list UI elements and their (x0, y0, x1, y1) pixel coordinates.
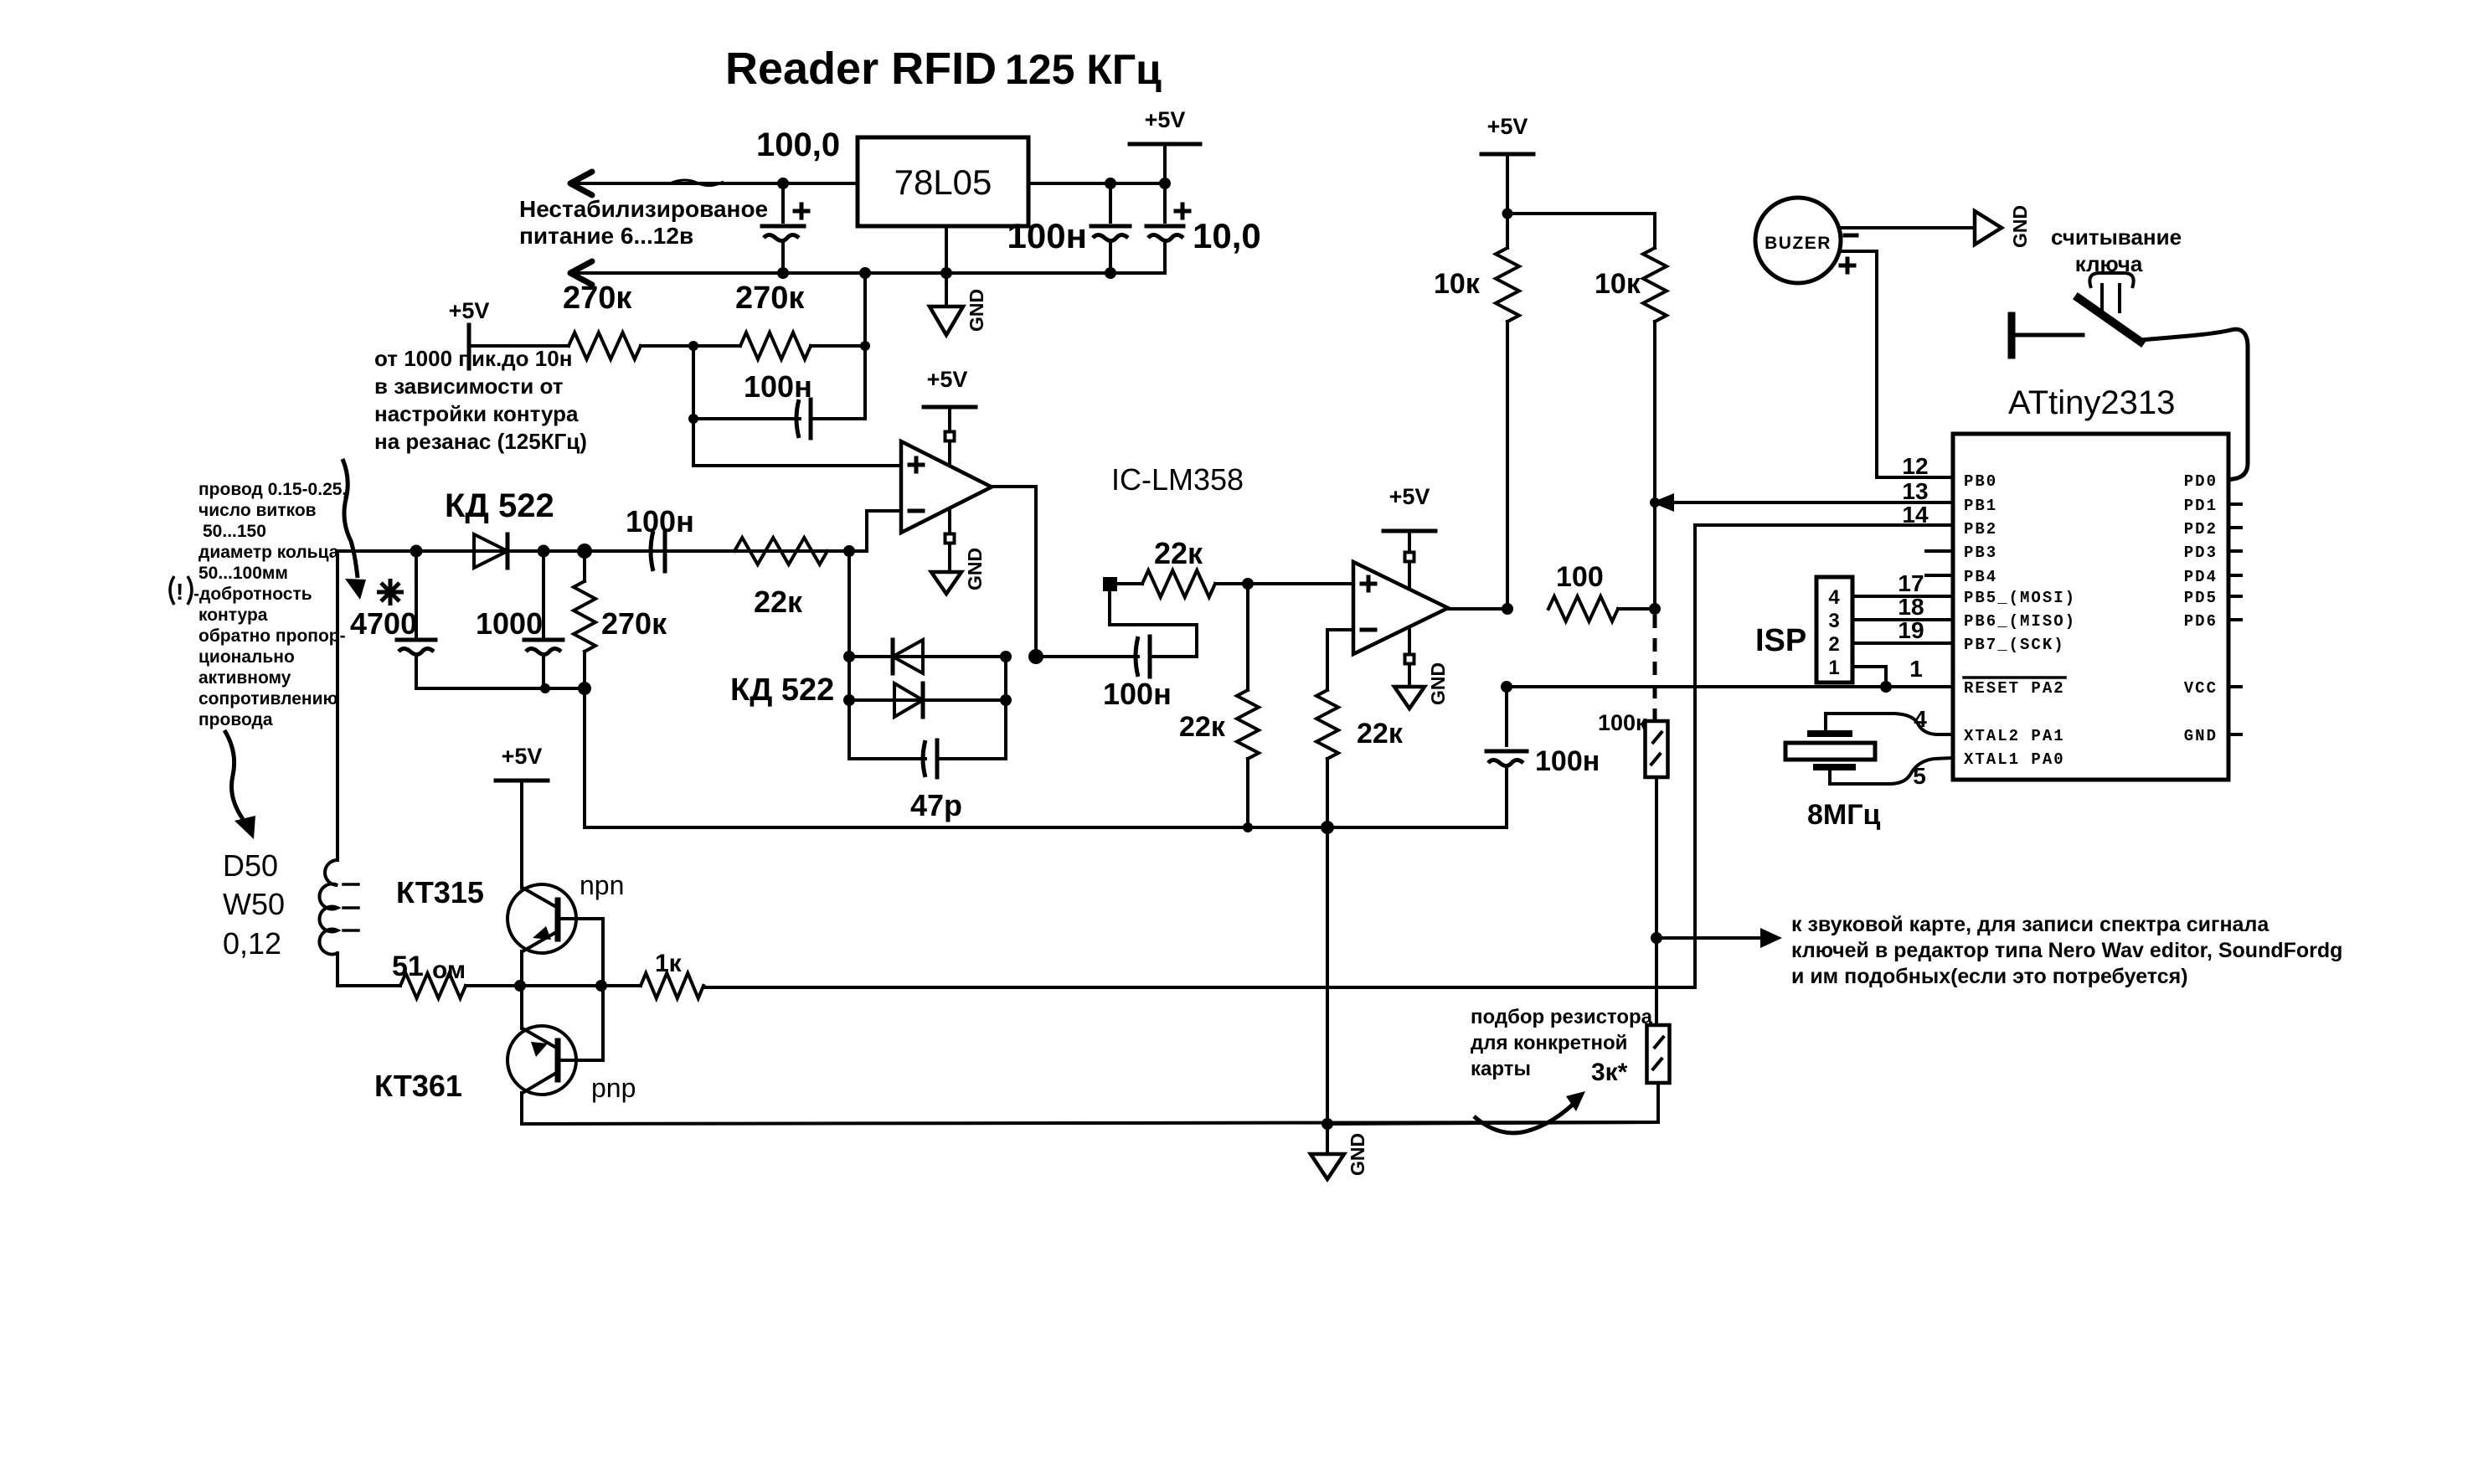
node: 100н on rail (1105, 267, 1116, 279)
node: D2 right (1000, 651, 1012, 662)
power symbol +5V (comparator pullups) (1481, 114, 1533, 214)
node: D3 right (1000, 694, 1012, 706)
node: 78L05 GND on rail (940, 267, 952, 279)
op-amp U1B LM358 (1353, 562, 1448, 654)
label: coil winding notes (193, 480, 347, 729)
svg-text:провода: провода (198, 710, 273, 729)
arrow: annotation to tuning cap (343, 459, 366, 600)
svg-text:обратно пропор-: обратно пропор- (198, 626, 346, 646)
pin stub PB4 (1926, 574, 1953, 577)
svg-text:GND: GND (966, 289, 987, 332)
wire: R11 to sound-card tap (1655, 777, 1658, 938)
wire: bias node to op-amp U1A + input (693, 419, 901, 466)
wire: unregulated input rail (570, 180, 858, 186)
pin stub PB3 (1926, 549, 1953, 553)
svg-text:PB3: PB3 (1964, 544, 1997, 562)
arrowhead: ground rail to external supply (570, 261, 592, 285)
svg-text:карты: карты (1471, 1058, 1531, 1080)
ground symbol (main) (1311, 1154, 1344, 1179)
switch SW1 fixed contact (2008, 316, 2016, 355)
wire: 78L05 GND pin drop (945, 226, 948, 307)
svg-text:1: 1 (1828, 657, 1839, 679)
wire: RESET line (pin 1) (1501, 681, 1953, 693)
crystal X1 8МГц (1785, 734, 1881, 831)
pin stubs PD1-PD6 VCC GND (2228, 502, 2241, 506)
resistor R3 270к (detector load) (574, 551, 667, 688)
svg-text:+5V: +5V (1487, 114, 1528, 139)
label: считывание ключа (2051, 224, 2182, 276)
svg-text:от 1000 пик.до 10н: от 1000 пик.до 10н (374, 346, 572, 371)
svg-text:ом: ом (432, 956, 466, 984)
node: C6 junction (538, 545, 550, 558)
svg-text:КТ361: КТ361 (374, 1069, 462, 1103)
svg-text:100к: 100к (1598, 710, 1647, 735)
resistor R2 270к (735, 281, 811, 359)
svg-text:PB1: PB1 (1964, 497, 1997, 515)
svg-text:на резанас (125КГц): на резанас (125КГц) (374, 429, 587, 454)
voltage regulator U1 78L05 (858, 137, 1028, 226)
svg-text:RESET PA2: RESET PA2 (1964, 679, 2065, 698)
wire: R4 to inverting node (827, 549, 849, 553)
svg-text:настройки контура: настройки контура (374, 401, 579, 426)
svg-text:+5V: +5V (1145, 107, 1186, 132)
svg-text:Reader RFID: Reader RFID (725, 44, 997, 94)
svg-text:провод 0.15-0.25,: провод 0.15-0.25, (198, 480, 347, 499)
svg-text:10к: 10к (1434, 268, 1481, 300)
svg-text:100н: 100н (1535, 745, 1600, 777)
node: U1B + node (1242, 578, 1254, 590)
svg-text:PB4: PB4 (1964, 568, 1997, 586)
svg-text:PB5_(MOSI): PB5_(MOSI) (1964, 589, 2076, 607)
wire: D2 row (849, 655, 1006, 658)
wire: R5 to U1B + input (1215, 582, 1353, 585)
svg-text:IC-LM358: IC-LM358 (1111, 462, 1244, 497)
wire: U1B output to pullup node (1448, 607, 1507, 611)
label: Нестабилизированое питание 6...12в (519, 196, 768, 249)
wire: buzzer to GND (1841, 226, 1975, 229)
svg-text:PD1: PD1 (2184, 497, 2218, 515)
resistor R6 22к (divider to bus) (1179, 584, 1259, 827)
wire: Q1 emitter to node (520, 951, 523, 986)
capacitor C8 47р (feedback) (849, 740, 1006, 822)
svg-text:22к: 22к (1357, 718, 1404, 750)
svg-text:270к: 270к (735, 281, 805, 316)
svg-text:50...100мм: 50...100мм (198, 564, 288, 583)
svg-text:-добротность: -добротность (193, 585, 312, 604)
svg-text:PB7_(SCK): PB7_(SCK) (1964, 636, 2065, 654)
svg-text:диаметр кольца: диаметр кольца (198, 543, 339, 562)
resistor R4 22к (734, 538, 827, 619)
resistor R1 270к (563, 281, 641, 359)
svg-text:100н: 100н (1103, 677, 1172, 711)
wire: inverting bus drop to ground wire (1326, 827, 1329, 1124)
svg-text:22к: 22к (754, 585, 803, 619)
label: buzzer plus (1841, 264, 1854, 268)
wire: U1B - input step (1327, 628, 1353, 631)
wire: R12 to ground wire (1327, 1083, 1658, 1124)
svg-text:0,12: 0,12 (223, 926, 281, 961)
svg-text:КД 522: КД 522 (730, 672, 834, 708)
node: base node (595, 980, 607, 992)
diode D1 КД522 (detector) (445, 487, 554, 568)
svg-text:GND: GND (2184, 727, 2218, 745)
power symbol +5V (bias feed) (449, 298, 502, 368)
svg-text:+5V: +5V (449, 298, 490, 323)
svg-text:GND: GND (964, 548, 986, 590)
wire: step to U1A - input (849, 511, 901, 551)
svg-text:PB6_(MISO): PB6_(MISO) (1964, 612, 2076, 631)
op-amp U1A LM358 (901, 441, 992, 533)
svg-text:подбор резистора: подбор резистора (1471, 1006, 1653, 1028)
node: U1B output node (1502, 603, 1513, 615)
svg-text:100н: 100н (744, 369, 812, 404)
svg-text:+5V: +5V (502, 744, 543, 769)
diode D2 КД522 (feedback, points left) (893, 640, 923, 673)
node: R10/R11 junction (1649, 603, 1661, 615)
transistor Q2 КТ361 (pnp) (507, 1026, 603, 1095)
wire: Q2 collector to ground wire (520, 1093, 523, 1124)
wire: feedback node to C9 (1036, 655, 1138, 658)
svg-text:для конкретной: для конкретной (1471, 1032, 1627, 1054)
label: (!) mark (170, 576, 192, 605)
svg-text:XTAL2 PA1: XTAL2 PA1 (1964, 727, 2065, 745)
wire: riser to ground rail (863, 273, 867, 346)
svg-text:GND: GND (1427, 662, 1449, 705)
wire: tap to R12 (1655, 938, 1658, 1025)
svg-text:GND: GND (1347, 1133, 1368, 1176)
wire: +5V to R1 (502, 344, 569, 348)
svg-text:PD3: PD3 (2184, 544, 2218, 562)
wire: base column (601, 919, 605, 1060)
svg-text:BUZER: BUZER (1765, 234, 1832, 253)
svg-text:к звуковой карте, для записи с: к звуковой карте, для записи спектра сиг… (1791, 913, 2269, 936)
svg-text:17: 17 (1898, 570, 1924, 596)
wire: ISP-4 to PB5 (pin 17) (1852, 595, 1953, 598)
svg-text:10к: 10к (1595, 268, 1641, 300)
svg-text:10,0: 10,0 (1193, 216, 1261, 255)
node: output/100н junction (1105, 178, 1116, 189)
svg-text:npn: npn (580, 870, 624, 900)
node: R1/R2 junction (688, 341, 698, 351)
svg-text:VCC: VCC (2184, 679, 2218, 698)
wire: emitter-base link (520, 984, 601, 987)
svg-text:PD6: PD6 (2184, 612, 2218, 631)
svg-text:14: 14 (1902, 502, 1929, 528)
svg-text:считывание: считывание (2051, 224, 2182, 250)
node: 270k feed on rail (859, 267, 871, 279)
wire: R1 to R2 (641, 344, 740, 348)
ground symbol (buzzer, points right) (1975, 205, 2031, 248)
capacitor C5 4700 (tank) (350, 551, 435, 688)
node: ground symbol tap (1322, 1118, 1333, 1130)
microcontroller U2 ATtiny2313 (1953, 384, 2228, 780)
svg-text:PD2: PD2 (2184, 520, 2218, 538)
svg-text:D50: D50 (223, 848, 278, 883)
node: sound-card tap (1651, 932, 1662, 944)
wire: R13 to emitter node (466, 984, 520, 987)
svg-text:!: ! (176, 579, 183, 605)
label: asterisk (selected value) (377, 579, 404, 605)
wire: D3 row (849, 698, 1006, 702)
svg-text:XTAL1 PA0: XTAL1 PA0 (1964, 750, 2065, 769)
wire: R2 to rail riser (811, 344, 865, 348)
arrow: to sound card (1656, 928, 1782, 948)
ground symbol (U1B) (1394, 628, 1449, 709)
node: tank/C5 junction (410, 545, 423, 558)
title text (725, 44, 1162, 94)
svg-text:100н: 100н (626, 504, 694, 538)
svg-text:2: 2 (1828, 633, 1839, 656)
ground symbol (U1A) (931, 509, 986, 594)
svg-text:+5V: +5V (927, 367, 968, 392)
svg-text:PD4: PD4 (2184, 568, 2218, 586)
wire: C7 to R4 (665, 549, 734, 553)
resistor R13 51 ом (392, 951, 466, 998)
label: к звуковой карте... (1791, 913, 2342, 988)
wire: ground return rail (570, 271, 1165, 275)
node: U1A inverting input node (843, 545, 855, 557)
svg-text:КД 522: КД 522 (445, 487, 554, 524)
node: R5 input pad (1103, 577, 1117, 591)
wire: crystal to XTAL2 (pin 4) (1826, 714, 1953, 734)
svg-text:4700: 4700 (350, 606, 417, 641)
wire: ISP-3 to PB6 (pin 18) (1852, 618, 1953, 621)
svg-text:в зависимости от: в зависимости от (374, 374, 564, 399)
svg-text:1к: 1к (655, 950, 683, 977)
svg-text:W50: W50 (223, 887, 285, 921)
power symbol +5V (driver) (496, 744, 548, 888)
wire: resonant tank top (coil to detector) (337, 549, 849, 553)
svg-text:ATtiny2313: ATtiny2313 (2008, 384, 2175, 421)
capacitor C10 100н (reset) (1486, 687, 1600, 827)
svg-text:13: 13 (1902, 478, 1928, 504)
U2 left pin labels (1964, 472, 2076, 769)
resistor R14 1к (601, 950, 703, 998)
resistor R11 100к (box style) (1598, 710, 1668, 777)
svg-text:270к: 270к (563, 281, 632, 316)
node: 22k divider on bus (1243, 822, 1253, 832)
svg-text:PD0: PD0 (2184, 472, 2218, 491)
resistor R10 100 (output series) (1548, 561, 1655, 621)
wire: dashed link to R11 (1653, 615, 1657, 721)
wire: PB2 riser and line (pin 14) (703, 525, 1953, 987)
wire: PB1 line (pin 13) (1651, 493, 1953, 512)
resistor R7 22к (feedback to bus) (1316, 630, 1404, 827)
svg-text:PB0: PB0 (1964, 472, 1997, 491)
svg-text:и им подобных(если это потребу: и им подобных(если это потребуется) (1791, 965, 2188, 988)
label: подбор резистора... (1471, 1006, 1653, 1080)
svg-text:125 КГц: 125 КГц (1005, 46, 1162, 93)
svg-text:100: 100 (1556, 561, 1604, 593)
svg-text:PB2: PB2 (1964, 520, 1997, 538)
svg-text:число витков: число витков (198, 501, 317, 520)
wire: contact to pivot (2015, 333, 2083, 338)
wire: crystal to XTAL1 (pin 5) (1830, 758, 1953, 784)
svg-text:1: 1 (1909, 656, 1923, 682)
wire: ISP-1 to RESET (1852, 667, 1892, 693)
resistor R8 10к (1434, 214, 1519, 322)
svg-text:контура: контура (198, 605, 268, 625)
wire: buzzer + to PB0 (pin 12) (1842, 251, 1953, 477)
wire: R8 bottom to output node (1506, 322, 1509, 609)
wire: bottom ground wire (522, 1122, 1658, 1124)
svg-text:ключей в редактор типа Nero Wa: ключей в редактор типа Nero Wav editor, … (1791, 939, 2342, 962)
capacitor C2 100н (output ceramic) (1007, 183, 1130, 273)
node: 78L05 input junction (777, 178, 789, 189)
wire: R9 bottom down (1653, 322, 1656, 609)
svg-text:+5V: +5V (1389, 484, 1430, 509)
wire: 78L05 output to +5V node (1028, 182, 1165, 185)
wire: right feedback riser (1004, 657, 1007, 759)
node: pullup split (1502, 209, 1513, 219)
node: R2/C4 junction (860, 341, 870, 351)
switch SW1 lever (2079, 298, 2141, 342)
svg-text:50...150: 50...150 (203, 522, 266, 541)
node: emitter node (514, 980, 526, 992)
svg-text:22к: 22к (1179, 711, 1226, 743)
wire: inverting node down (848, 551, 851, 759)
wire: bottom bus drop (585, 688, 1507, 827)
svg-text:1000: 1000 (476, 606, 543, 641)
svg-text:3к*: 3к* (1591, 1059, 1628, 1086)
diode D3 КД522 (feedback, points right) (894, 683, 923, 717)
ground symbol (78L05) (930, 307, 963, 335)
svg-text:78L05: 78L05 (894, 162, 992, 202)
svg-text:270к: 270к (601, 606, 667, 641)
wire: lever to PD0 (2141, 329, 2248, 480)
arrow: note to coil label D50 (224, 730, 255, 839)
capacitor C1 100,0 (input electrolytic) (756, 126, 840, 273)
arrow: resistor selection note (1474, 1091, 1585, 1133)
svg-text:22к: 22к (1154, 536, 1203, 570)
capacitor C9 100н (interstage) (1103, 636, 1172, 711)
resistor R5 22к (to + input) (1117, 536, 1215, 597)
svg-text:GND: GND (2009, 205, 2031, 248)
svg-text:ционально: ционально (198, 647, 295, 667)
svg-text:активному: активному (198, 668, 291, 688)
label: D50 W50 0,12 (223, 848, 285, 961)
svg-text:4: 4 (1828, 586, 1840, 609)
node: R3 junction (577, 544, 592, 559)
svg-text:51: 51 (392, 951, 424, 982)
svg-text:питание 6...12в: питание 6...12в (519, 223, 693, 249)
arrowhead: input rail to external supply (570, 172, 592, 195)
switch SW1 (key read) bracket (2089, 273, 2133, 312)
wire: GND drop (1326, 1124, 1329, 1154)
wire: detector bottom loop (416, 682, 591, 695)
svg-text:3: 3 (1828, 610, 1839, 632)
svg-text:pnp: pnp (591, 1073, 636, 1103)
svg-text:сопротивлению: сопротивлению (198, 689, 337, 709)
label: от 1000 пик.до 10н ... (374, 346, 587, 454)
label: buzzer minus (1845, 234, 1857, 238)
wire: node to Q2 emitter (520, 986, 523, 1028)
power symbol +5V (U1B) (1383, 484, 1435, 587)
node: feedback/output node (1028, 649, 1043, 664)
svg-text:8МГц: 8МГц (1807, 799, 1881, 831)
node: D3 left (843, 694, 855, 706)
node: PB1 tap (1650, 497, 1660, 508)
svg-text:100,0: 100,0 (756, 126, 840, 163)
wire: U1A output down to feedback node (992, 487, 1036, 657)
capacitor C4 100н (R2 bypass) (688, 346, 865, 438)
wire: split to R9 top (1507, 214, 1655, 248)
svg-text:ISP: ISP (1755, 623, 1806, 658)
svg-text:47р: 47р (910, 788, 962, 822)
connector J1 ISP (1755, 577, 1852, 683)
svg-text:12: 12 (1902, 453, 1928, 479)
wire: coil to R13 (337, 953, 400, 986)
resistor R12 3к* (box style) (1591, 1025, 1670, 1086)
node: output/+5V junction (1159, 178, 1171, 189)
wire: ISP-2 to PB7 (pin 19) (1852, 642, 1953, 645)
svg-text:100н: 100н (1007, 216, 1087, 255)
node: D2 left (843, 651, 855, 662)
transistor Q1 КТ315 (npn) (507, 884, 603, 953)
wire: C9 jog up to R5 (1110, 590, 1197, 657)
buzzer BZ1 (1755, 198, 1841, 283)
inductor L1 (antenna coil) (319, 860, 358, 955)
node: 22k inverting on bus (1321, 821, 1334, 834)
svg-text:PD5: PD5 (2184, 589, 2218, 607)
capacitor C7 100н (coupling) (626, 504, 694, 571)
resistor R9 10к (1595, 248, 1667, 322)
wire: tank left leg (336, 551, 339, 860)
power symbol +5V (U1A) (924, 367, 976, 464)
capacitor C3 10,0 (output electrolytic) (1146, 183, 1261, 273)
node: 100,0 на rail (777, 267, 789, 279)
svg-text:КТ315: КТ315 (396, 875, 484, 909)
capacitor C6 1000 (detector filter) (476, 551, 563, 688)
svg-text:Нестабилизированое: Нестабилизированое (519, 196, 768, 222)
